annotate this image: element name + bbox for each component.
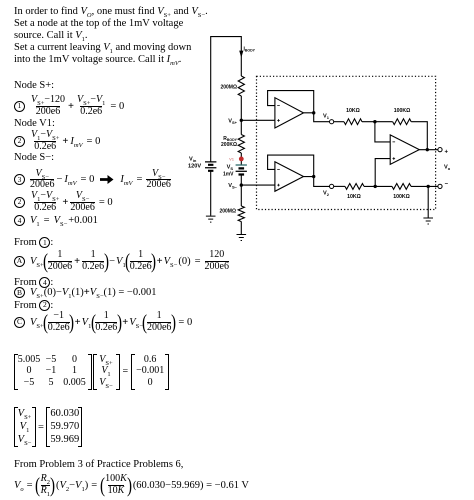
resistor 100K top [393,119,411,125]
equation 4 [14,215,98,226]
svg-text:200KΩ: 200KΩ [221,142,237,148]
current arrow Ibody [239,51,243,58]
svg-text:V1: V1 [229,156,235,161]
svg-text:200MΩ: 200MΩ [220,85,237,91]
junction U3 out [426,148,429,151]
node V1 (red) [239,157,244,162]
svg-text:V1: V1 [323,114,330,121]
U1 feedback wire [268,91,314,113]
junction top [373,120,376,123]
wire top loop [211,37,242,162]
equation 2b [14,191,113,213]
heading From 1 [14,237,53,248]
matrix equation 1 [14,354,170,390]
ground left [206,216,216,222]
svg-text:VS+: VS+ [228,118,237,125]
svg-text:100KΩ: 100KΩ [394,108,411,114]
U3 minus input wire [375,122,390,142]
wire 100K to minus terminal [411,185,438,187]
equation 2 [14,130,100,152]
ground right [423,218,433,224]
equation 1 [14,95,124,117]
svg-text:Vo: Vo [444,165,451,172]
svg-text:VS−: VS− [228,183,237,190]
op-amp U2 [275,162,304,192]
equation C [14,311,192,333]
wire Vs- to U2 [241,184,275,186]
U2 output wire [304,177,330,187]
svg-text:−: − [445,182,449,188]
matrix equation 2 [14,407,83,447]
label Vo [444,165,451,172]
resistor 10K bottom [345,183,364,189]
U1 output wire [304,113,330,122]
wire V2 to R 10K bottom [334,185,345,187]
svg-text:10KΩ: 10KΩ [346,108,360,114]
resistor 200M bottom [238,206,244,222]
node V2 terminal [330,184,334,188]
resistor 100K bottom [392,183,411,189]
dashed amplifier box [257,76,436,209]
wire 100K to output [411,122,427,150]
resistor 200M top [238,76,244,96]
op-amp U3 [390,135,419,165]
svg-text:V2: V2 [323,191,330,198]
source Vs 1mV [236,165,247,175]
svg-text:VS: VS [227,165,234,172]
final equation [14,474,249,496]
svg-text:120V: 120V [188,164,201,170]
wire left lower [210,171,212,216]
node Vs+ [240,119,243,122]
wire to junction bottom [364,185,392,187]
svg-text:200MΩ: 200MΩ [219,209,236,215]
intro paragraph [14,6,208,66]
U3 output wire [419,149,438,151]
ground bottom center [237,235,247,241]
svg-text:10KΩ: 10KΩ [347,194,361,200]
wire V1 to R 10K [334,121,344,123]
closing sentence [14,459,183,471]
junction U2 out [312,175,315,178]
svg-text:+: + [445,150,449,156]
node Vs- [240,183,243,186]
wire right chain [240,96,242,234]
heading From 2 [14,300,53,311]
source Vin 120V [205,162,216,171]
svg-text:Vin: Vin [189,157,197,164]
junction U1 out [312,111,315,114]
U3 plus input wire [375,159,390,187]
op-amp U1 [275,98,304,128]
wire Vs+ to U1 [241,119,275,121]
equation B [14,287,156,298]
heading Node V1 [14,118,55,130]
U2 feedback wire [268,155,314,176]
heading Node S- [14,152,54,164]
svg-text:IBODY: IBODY [244,47,256,53]
heading From 4 [14,277,53,288]
wire to ground right [427,186,429,217]
junction bottom left [374,185,377,188]
wire to junction [362,121,393,123]
equation 3 [14,169,171,191]
node V1 terminal [330,120,334,124]
resistor Rbody 200K [238,135,244,153]
equation A [14,250,229,272]
svg-text:1mV: 1mV [223,172,234,178]
svg-text:100KΩ: 100KΩ [393,194,410,200]
heading Node S+ [14,80,54,92]
terminal plus [438,148,442,152]
junction bottom right [427,185,430,188]
terminal minus [438,184,442,188]
resistor 10K top [344,119,362,125]
